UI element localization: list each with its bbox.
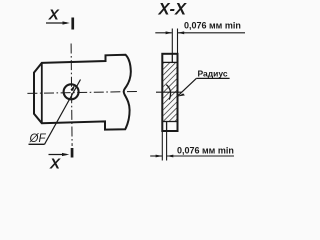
svg-text:0,076 мм min: 0,076 мм min <box>177 145 234 155</box>
label Radius shelf <box>196 77 229 79</box>
bottom dimension line left tail <box>150 155 162 157</box>
svg-text:X: X <box>49 155 61 172</box>
section plane bar bottom <box>71 148 74 158</box>
section bar hatching <box>163 63 176 121</box>
label OF shelf <box>29 143 45 145</box>
vertical centerline (left view) <box>71 44 72 147</box>
svg-text:X-X: X-X <box>158 1 188 19</box>
chamfer edge line <box>41 63 43 123</box>
horizontal centerline (left view) <box>27 92 136 94</box>
top dimension line right tail <box>178 32 245 34</box>
bottom dimension line right tail <box>167 155 234 157</box>
svg-text:X: X <box>48 7 60 24</box>
section plane bar top <box>71 18 74 30</box>
label Radius leader <box>178 78 197 96</box>
plating boundary bottom vertical <box>166 122 168 132</box>
svg-text:0,076 мм min: 0,076 мм min <box>184 20 241 30</box>
section centerline <box>156 91 182 93</box>
leader line OF <box>45 80 81 145</box>
plating boundary top vertical <box>171 54 173 63</box>
bottom dimension extension line left <box>161 131 163 161</box>
section arrow top <box>46 22 67 24</box>
top dimension line left tail <box>155 32 172 34</box>
svg-text:ØF: ØF <box>29 133 47 145</box>
plating band bottom line <box>162 121 177 123</box>
bottom dimension extension line right <box>166 131 168 161</box>
plating band top line <box>162 61 177 63</box>
section bar outline <box>162 54 177 131</box>
part outline (plan view) <box>34 55 131 130</box>
top dimension extension line right <box>177 29 179 54</box>
svg-text:Радиус: Радиус <box>198 69 228 79</box>
hole circle <box>64 84 79 99</box>
section arrow bottom <box>49 154 67 156</box>
top dimension extension line left <box>171 29 173 54</box>
radius arc in section <box>166 85 170 100</box>
leader arrowhead <box>71 84 76 91</box>
